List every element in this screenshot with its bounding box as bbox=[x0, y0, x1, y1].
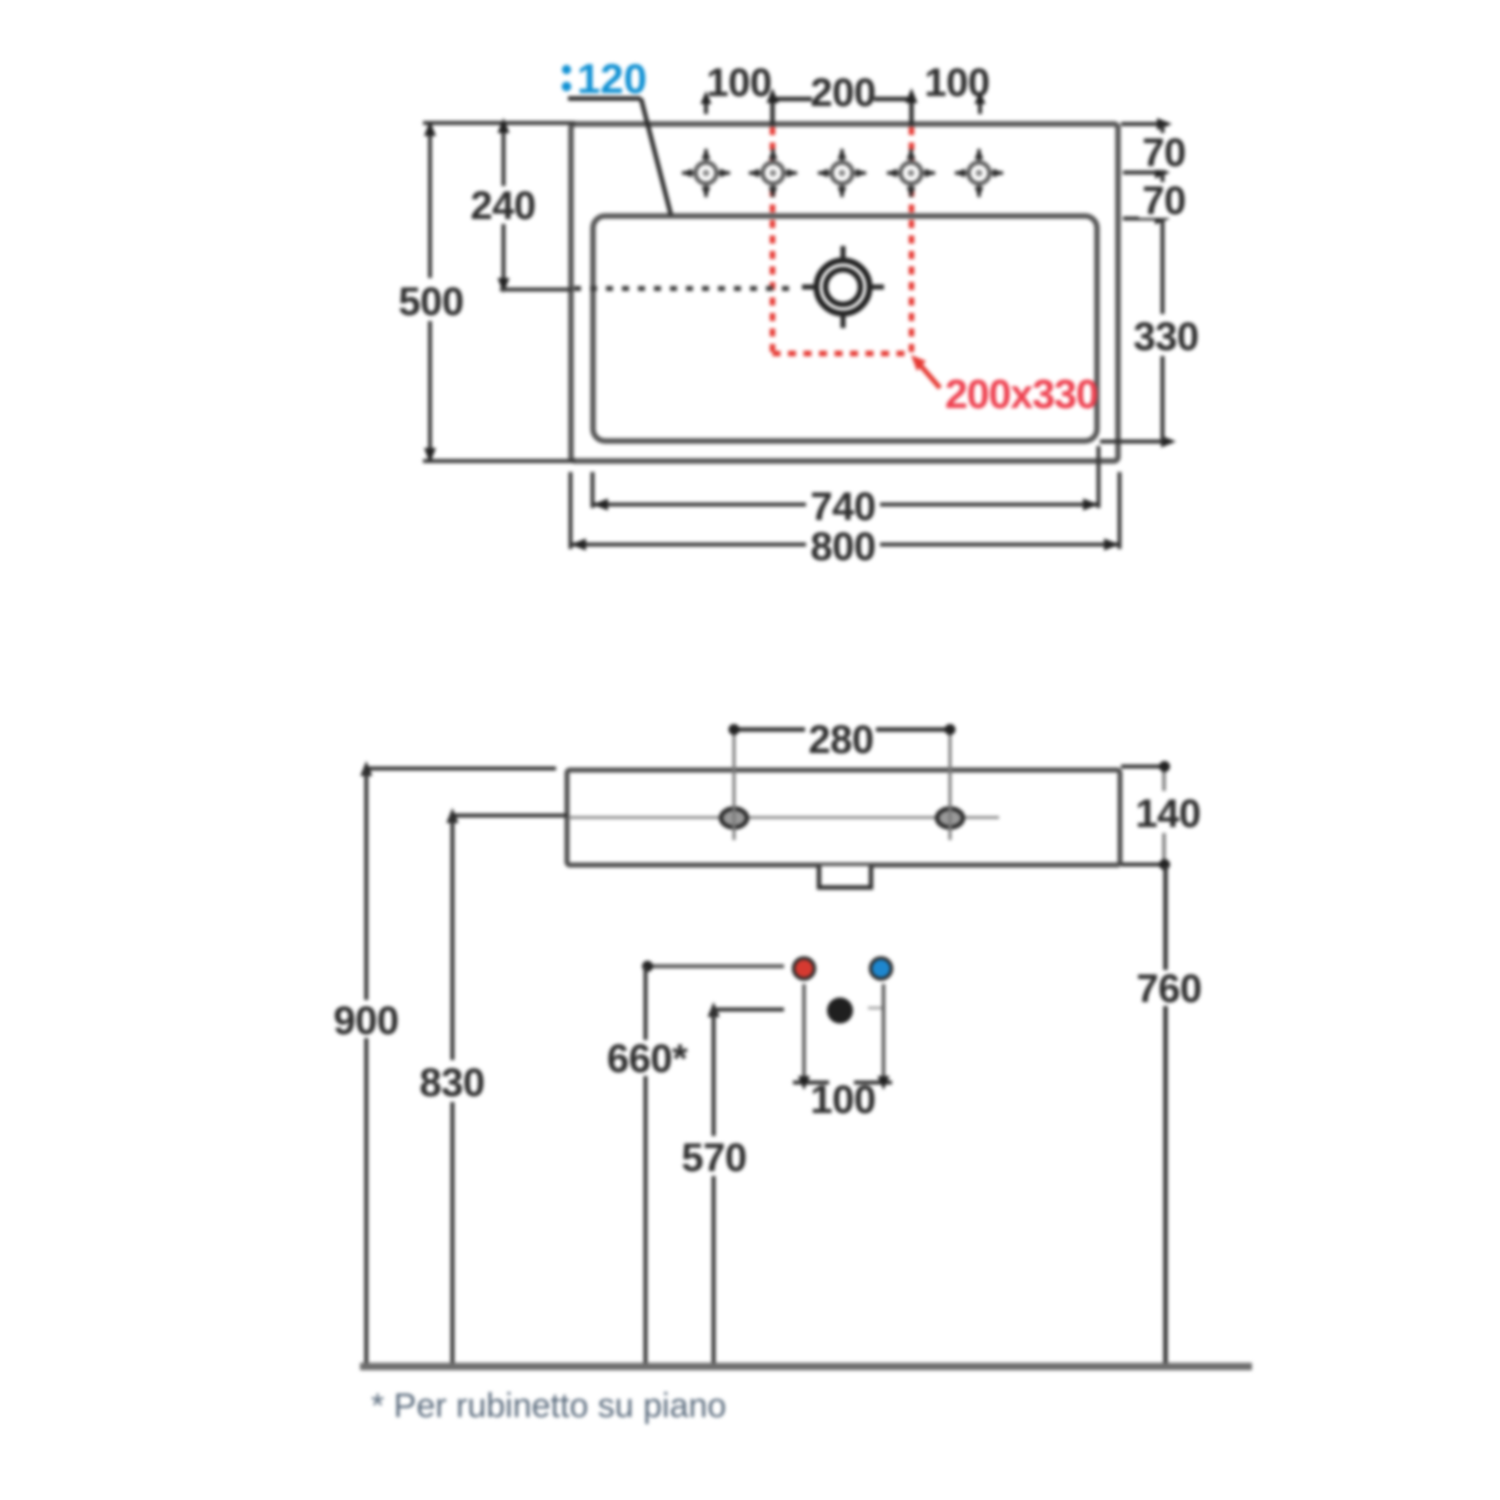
right extension line y=172.5 bbox=[1123, 171, 1166, 175]
label 70 upper bbox=[1139, 133, 1188, 170]
label 800 bbox=[806, 526, 880, 564]
svg-text:740: 740 bbox=[810, 485, 875, 529]
faucet hole cross 4 bbox=[886, 148, 936, 198]
drain tick left bbox=[802, 285, 818, 290]
hot water dot (red) bbox=[794, 958, 815, 979]
faucet hole cross 3 bbox=[817, 148, 867, 198]
up arrow at x=706 bbox=[704, 102, 708, 114]
svg-text:660*: 660* bbox=[607, 1037, 688, 1081]
240 bottom extension bbox=[500, 288, 572, 292]
svg-text:200x330: 200x330 bbox=[945, 371, 1098, 417]
500 extension line bottom bbox=[423, 459, 575, 463]
label 500 bbox=[396, 278, 466, 321]
leader line slanted to bowl bbox=[641, 99, 671, 216]
label 740 bbox=[806, 486, 880, 524]
svg-text:900: 900 bbox=[333, 999, 398, 1043]
faucet hole cross 1 bbox=[681, 148, 731, 198]
740 dimension line bbox=[593, 503, 1099, 507]
100 extension line left bbox=[802, 984, 806, 1082]
fixing hole left bbox=[721, 809, 747, 828]
100 extension line right bbox=[882, 984, 886, 1082]
svg-text:100: 100 bbox=[810, 1078, 875, 1122]
800 dimension line bbox=[571, 543, 1120, 547]
280 dimension line bbox=[734, 727, 805, 732]
svg-text:* Per rubinetto su piano: * Per rubinetto su piano bbox=[371, 1387, 726, 1425]
500 extension line top bbox=[423, 121, 575, 125]
830 top extension bbox=[452, 814, 568, 818]
label 240 bbox=[466, 186, 540, 224]
svg-text:240: 240 bbox=[470, 184, 535, 228]
830 vertical dimension line bbox=[450, 816, 454, 1061]
570 vertical dimension line bbox=[712, 1010, 716, 1137]
660 vertical dimension line bbox=[644, 966, 648, 1040]
tick at x=772.5 bbox=[770, 97, 775, 126]
label 70 lower bbox=[1139, 182, 1188, 218]
280 extension line left bbox=[733, 729, 736, 840]
900 vertical dimension line bbox=[364, 769, 368, 1001]
basin inner bowl rectangle bbox=[593, 216, 1097, 441]
red cutout dashed line left bbox=[770, 127, 776, 354]
leader line under 120 bbox=[568, 96, 641, 101]
thin mid line bbox=[568, 816, 999, 819]
drain tick right bbox=[868, 285, 884, 290]
svg-text:200: 200 bbox=[810, 71, 875, 115]
small gray tick right of waste bbox=[868, 1007, 882, 1010]
500 dimension line bbox=[428, 123, 432, 461]
svg-text:280: 280 bbox=[808, 718, 873, 762]
cold water dot (blue) bbox=[871, 958, 892, 979]
svg-text:70: 70 bbox=[1142, 179, 1186, 223]
drain tab under front view bbox=[819, 866, 871, 888]
top dimension line 100/200/100 bbox=[774, 97, 812, 102]
waste dot (black) bbox=[827, 998, 853, 1024]
660 top extension bbox=[646, 964, 785, 968]
svg-text:100: 100 bbox=[924, 61, 989, 105]
label 140 bbox=[1130, 791, 1206, 833]
bottom extension lines of plan view bbox=[569, 472, 573, 549]
drain tick bottom bbox=[841, 312, 846, 328]
svg-text:330: 330 bbox=[1133, 315, 1198, 359]
red cutout dashed line right bbox=[909, 127, 915, 354]
drain tick top bbox=[841, 246, 846, 262]
right extension line y=441.5 bbox=[1100, 440, 1172, 444]
basin front rectangle bbox=[567, 770, 1120, 865]
ground line bbox=[360, 1363, 1252, 1371]
drain outer ring bbox=[817, 261, 870, 314]
280 extension line right bbox=[949, 729, 952, 840]
svg-text:760: 760 bbox=[1136, 967, 1201, 1011]
svg-text:500: 500 bbox=[398, 280, 463, 324]
140 dimension line bbox=[1162, 767, 1166, 865]
svg-text:570: 570 bbox=[681, 1136, 746, 1180]
right extension line y=124 bbox=[1121, 122, 1168, 126]
red cutout dashed line bottom bbox=[773, 351, 912, 357]
tick at x=911.5 bbox=[909, 97, 914, 126]
faucet hole cross 2 bbox=[748, 148, 798, 198]
760 vertical dimension line bbox=[1163, 866, 1168, 970]
faucet hole cross 5 bbox=[954, 148, 1004, 198]
svg-text:830: 830 bbox=[419, 1061, 484, 1105]
svg-text:70: 70 bbox=[1142, 131, 1186, 175]
right extension line y=218.5 bbox=[1123, 217, 1166, 221]
svg-text:140: 140 bbox=[1135, 792, 1200, 836]
basin outer rectangle bbox=[571, 124, 1118, 461]
svg-text:100: 100 bbox=[706, 61, 771, 105]
140 extension line bottom bbox=[1121, 863, 1170, 867]
right vertical dimension line bbox=[1161, 124, 1165, 442]
red leader line bbox=[915, 359, 940, 388]
100 dimension line bbox=[793, 1081, 829, 1085]
svg-text:120: 120 bbox=[577, 55, 647, 102]
dotted centerline bbox=[574, 286, 797, 291]
900 top extension bbox=[366, 767, 556, 771]
up arrow at x=980 bbox=[978, 102, 982, 114]
240 dimension line bbox=[502, 121, 506, 290]
label 330 bbox=[1131, 314, 1203, 356]
svg-text:800: 800 bbox=[810, 525, 875, 569]
570 arrow and extension bbox=[708, 1002, 720, 1017]
140 extension line top bbox=[1121, 765, 1169, 769]
drain inner ring bbox=[826, 270, 861, 305]
fixing hole right bbox=[937, 809, 963, 828]
red leader arrow bbox=[911, 355, 926, 371]
blue diameter symbol bbox=[562, 65, 572, 91]
